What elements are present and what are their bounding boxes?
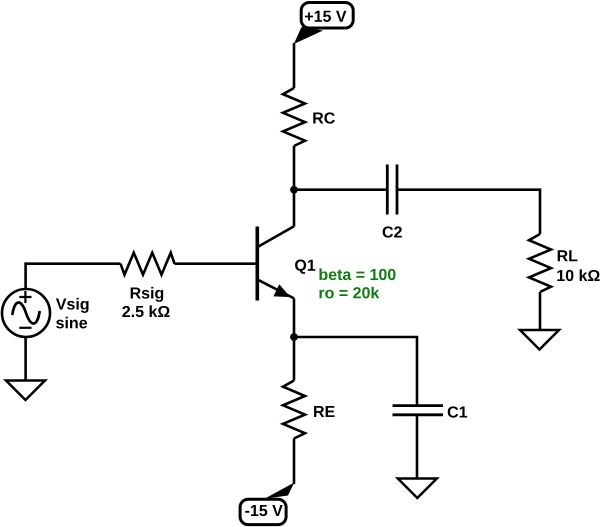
- label ro: [319, 287, 379, 299]
- wire node to RE: [293, 337, 296, 381]
- label Rsig value: [122, 305, 169, 317]
- node emitter junction: [290, 333, 298, 341]
- +15V callout pointer: [294, 27, 323, 44]
- wire C2 to RL: [397, 190, 540, 234]
- -15V callout pointer: [265, 483, 295, 499]
- +15V supply box: [301, 3, 353, 29]
- wire RE to -15V: [293, 439, 296, 485]
- wire Rsig to base: [175, 262, 256, 265]
- label RE: [314, 406, 335, 417]
- wire node to C2: [294, 188, 387, 191]
- resistor RC: [283, 88, 305, 146]
- label beta: [319, 268, 395, 280]
- resistor Rsig: [121, 253, 175, 275]
- wire C1 to ground: [416, 415, 419, 479]
- capacitor C2: [387, 165, 397, 215]
- label C2: [383, 226, 402, 237]
- label RL: [558, 250, 578, 261]
- ground under C1: [398, 479, 437, 499]
- label Q1: [295, 260, 315, 274]
- capacitor C1: [393, 406, 444, 415]
- resistor RL: [529, 234, 551, 292]
- label Vsig: [56, 298, 89, 313]
- wire RC to collector: [293, 146, 296, 227]
- wire Vsig to Rsig: [26, 264, 121, 290]
- wire +15V to RC: [293, 43, 296, 88]
- label Rsig: [131, 287, 164, 302]
- resistor RE: [283, 381, 305, 439]
- wire RL to ground: [539, 292, 542, 330]
- transistor Q1: [257, 226, 294, 300]
- wire Vsig to ground: [24, 337, 27, 381]
- label RL value: [557, 269, 599, 281]
- label sine: [56, 317, 87, 329]
- label C1: [448, 406, 467, 417]
- ground under Vsig: [6, 381, 45, 401]
- -15V supply box: [240, 499, 286, 524]
- wire node to C1: [294, 337, 417, 406]
- wire emitter to node: [293, 298, 296, 337]
- node collector junction: [290, 186, 298, 194]
- ground under RL: [520, 330, 559, 350]
- source Vsig: [2, 289, 50, 337]
